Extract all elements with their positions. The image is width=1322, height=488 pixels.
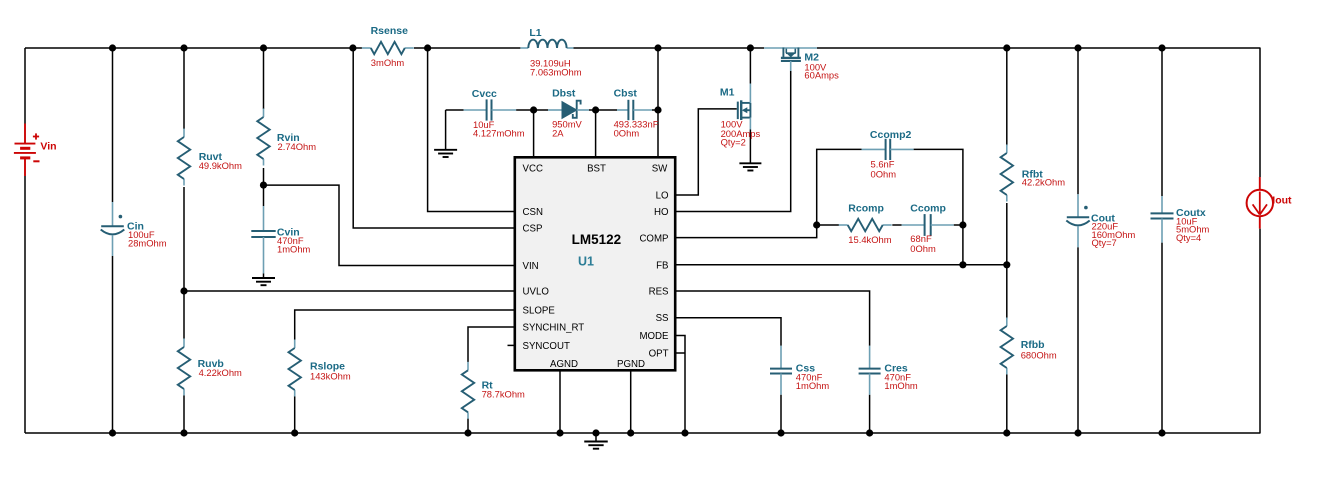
svg-text:COMP: COMP bbox=[639, 233, 668, 244]
node bottom / Cres bbox=[866, 429, 873, 436]
wire Cout bottom bbox=[1077, 247, 1079, 433]
node top bus / Cout bbox=[1074, 44, 1081, 51]
svg-text:143kOhm: 143kOhm bbox=[310, 371, 351, 382]
pin CSP bbox=[523, 224, 543, 235]
svg-text:CSN: CSN bbox=[523, 207, 543, 218]
wire Rcomp-Ccomp link bbox=[892, 224, 901, 226]
label Ruvb bbox=[198, 358, 224, 370]
node UVLO junction bbox=[180, 287, 187, 294]
wire CSP net bbox=[353, 48, 515, 228]
svg-text:1mOhm: 1mOhm bbox=[796, 380, 830, 391]
label Rcomp bbox=[848, 203, 884, 215]
wire Dbst to Cbst bbox=[589, 109, 617, 111]
wire Rt bottom bbox=[467, 419, 469, 434]
diode Dbst (schottky) bbox=[548, 101, 589, 119]
pin FB bbox=[656, 261, 668, 272]
svg-text:0Ohm: 0Ohm bbox=[614, 128, 640, 139]
label Css bbox=[796, 363, 815, 375]
svg-text:SYNCHIN_RT: SYNCHIN_RT bbox=[523, 323, 585, 334]
svg-text:60Amps: 60Amps bbox=[804, 70, 839, 81]
wire top bus output segment bbox=[817, 47, 1261, 49]
label Rvin bbox=[277, 132, 300, 144]
svg-text:4.22kOhm: 4.22kOhm bbox=[199, 367, 242, 378]
wire Ruvt-UVLO-Ruvb bbox=[183, 187, 185, 339]
value Rcomp: 15.4kOhm bbox=[848, 234, 891, 245]
pin AGND bbox=[550, 359, 578, 370]
value Cbst: 493.333nF / 0Ohm bbox=[614, 119, 659, 139]
label Ccomp bbox=[910, 203, 946, 215]
wire MODE net bbox=[675, 336, 685, 434]
wire Rslope bottom bbox=[294, 396, 296, 434]
label Rfbb bbox=[1021, 339, 1045, 351]
wire M1 source to ground bbox=[749, 130, 751, 164]
resistor Rslope bbox=[289, 340, 301, 397]
svg-text:SW: SW bbox=[652, 164, 668, 175]
svg-text:PGND: PGND bbox=[617, 359, 645, 370]
pin OPT bbox=[649, 349, 669, 360]
wire Iout bottom bbox=[1259, 229, 1261, 433]
label Vin bbox=[40, 141, 56, 153]
capacitor Cvcc bbox=[464, 99, 516, 120]
label Ccomp2 bbox=[870, 129, 912, 141]
value Cvcc: 10uF / 4.127mOhm bbox=[473, 119, 525, 139]
value Cvin: 470nF / 1mOhm bbox=[277, 235, 311, 255]
wire Cvcc ground lead bbox=[445, 110, 447, 150]
capacitor Cres bbox=[859, 346, 881, 395]
svg-text:78.7kOhm: 78.7kOhm bbox=[482, 389, 525, 400]
wire LO to M1 gate bbox=[675, 109, 737, 195]
svg-text:Qty=7: Qty=7 bbox=[1092, 237, 1117, 248]
wire Iout top bbox=[1259, 48, 1261, 177]
wire HO to M2 gate bbox=[675, 71, 791, 212]
svg-text:2A: 2A bbox=[552, 128, 564, 139]
node top bus / Ruvt bbox=[180, 44, 187, 51]
capacitor Ccomp2 bbox=[862, 139, 914, 160]
capacitor Cbst bbox=[617, 100, 652, 120]
label Rfbt bbox=[1022, 168, 1043, 180]
wire COMP net bbox=[675, 225, 817, 238]
wire Ruvb bottom bbox=[183, 396, 185, 434]
wire Ccomp2 loop left bbox=[817, 149, 862, 225]
wire UVLO net bbox=[184, 290, 515, 292]
value Cres: 470nF / 1mOhm bbox=[884, 372, 918, 392]
wire Cres bottom bbox=[869, 395, 871, 433]
wire left rail lower bbox=[24, 176, 26, 433]
svg-text:HO: HO bbox=[654, 207, 669, 218]
value Rfbb: 680Ohm bbox=[1021, 349, 1057, 360]
wire SYNCHIN_RT net bbox=[468, 327, 515, 362]
capacitor Cvin bbox=[251, 206, 275, 273]
value Rt: 78.7kOhm bbox=[482, 389, 525, 400]
current source Iout bbox=[1247, 177, 1273, 229]
svg-text:Dbst: Dbst bbox=[552, 88, 576, 100]
svg-text:SS: SS bbox=[656, 313, 669, 324]
node top bus / Rfbt bbox=[1003, 44, 1010, 51]
voltage source Vin bbox=[14, 124, 40, 177]
node bottom / Ruvb bbox=[180, 429, 187, 436]
transistor M1 (NMOS) bbox=[738, 84, 751, 130]
pin SYNCOUT bbox=[523, 341, 570, 352]
svg-text:4.127mOhm: 4.127mOhm bbox=[473, 128, 525, 139]
node Rvin-Cvin junction bbox=[260, 182, 267, 189]
wire SYNCOUT stub bbox=[508, 344, 515, 346]
ground near Cvcc bbox=[434, 150, 457, 157]
svg-text:VIN: VIN bbox=[523, 261, 539, 272]
svg-text:Cvcc: Cvcc bbox=[472, 88, 497, 100]
node top bus / SW bbox=[654, 44, 661, 51]
svg-text:2.74Ohm: 2.74Ohm bbox=[278, 141, 317, 152]
wire RES net bbox=[675, 291, 869, 346]
pin SLOPE bbox=[523, 305, 556, 316]
svg-text:1mOhm: 1mOhm bbox=[277, 244, 311, 255]
value M1: 100V / 200Amps / Qty=2 bbox=[721, 119, 761, 148]
node bottom / Cout bbox=[1074, 429, 1081, 436]
wire BST pin drop bbox=[595, 110, 597, 157]
svg-text:3mOhm: 3mOhm bbox=[371, 57, 405, 68]
pin SW bbox=[652, 164, 668, 175]
svg-text:15.4kOhm: 15.4kOhm bbox=[848, 234, 891, 245]
wire Css bottom bbox=[780, 395, 782, 433]
node bottom / MODE-OPT bbox=[681, 429, 688, 436]
node top bus / Rvin bbox=[260, 44, 267, 51]
value Dbst: 950mV / 2A bbox=[552, 119, 582, 139]
wire Cvin to ground bbox=[263, 273, 265, 278]
label Cbst bbox=[614, 88, 638, 100]
wire top bus SW segment bbox=[573, 47, 764, 49]
svg-text:Iout: Iout bbox=[1272, 194, 1292, 206]
svg-text:CSP: CSP bbox=[523, 224, 543, 235]
capacitor Coutx bbox=[1151, 196, 1174, 243]
label Coutx bbox=[1176, 207, 1206, 219]
pin RES bbox=[649, 287, 669, 298]
label Cout bbox=[1091, 212, 1115, 224]
svg-text:Cbst: Cbst bbox=[614, 88, 638, 100]
label Dbst bbox=[552, 88, 576, 100]
wire AGND drop bbox=[559, 370, 561, 433]
wire Rfbt to FB junction bbox=[1006, 203, 1008, 319]
pin MODE bbox=[639, 331, 669, 342]
svg-text:LM5122: LM5122 bbox=[572, 232, 622, 247]
node bottom / AGND bbox=[556, 429, 563, 436]
wire Ruvt top bbox=[183, 48, 185, 129]
svg-text:1mOhm: 1mOhm bbox=[884, 380, 918, 391]
resistor Ruvb bbox=[178, 339, 190, 396]
value Cout: 220uF / 160mOhm / Qty=7 bbox=[1092, 221, 1136, 248]
label Iout bbox=[1272, 194, 1292, 206]
wire Cin top bbox=[112, 48, 114, 202]
wire OPT net bbox=[675, 352, 685, 354]
node bottom / Coutx bbox=[1158, 429, 1165, 436]
wire SS net bbox=[675, 318, 781, 346]
svg-text:OPT: OPT bbox=[649, 349, 669, 360]
node comp node B bbox=[959, 221, 966, 228]
value M2: 100V / 60Amps bbox=[804, 61, 839, 80]
capacitor Css bbox=[770, 346, 792, 395]
svg-text:L1: L1 bbox=[529, 27, 541, 39]
wire bottom bus bbox=[25, 432, 1261, 434]
wire PGND drop bbox=[630, 370, 632, 433]
node top bus / Rsense left bbox=[349, 44, 356, 51]
pin CSN bbox=[523, 207, 543, 218]
resistor Rfbt bbox=[1001, 145, 1013, 202]
svg-text:Vin: Vin bbox=[40, 141, 56, 153]
svg-text:Ccomp: Ccomp bbox=[910, 203, 946, 215]
svg-text:BST: BST bbox=[587, 164, 606, 175]
pin BST bbox=[587, 164, 606, 175]
pin VCC bbox=[523, 164, 543, 175]
value L1: 39.109uH / 7.063mOhm bbox=[530, 58, 582, 78]
label U1 designator bbox=[578, 254, 594, 268]
node top bus / M1 drain bbox=[747, 44, 754, 51]
wire top bus between Rsense and L1 bbox=[414, 47, 520, 49]
wire top bus left bbox=[25, 47, 362, 49]
value Cin: 100uF / 28mOhm bbox=[128, 229, 167, 249]
label Cres bbox=[884, 363, 908, 375]
resistor Rt bbox=[462, 362, 474, 419]
wire SW net bbox=[657, 48, 659, 157]
value Rvin: 2.74Ohm bbox=[278, 141, 317, 152]
resistor Rsense bbox=[362, 42, 414, 54]
label Cvin bbox=[277, 227, 300, 239]
wire Ccomp2 loop right bbox=[914, 149, 963, 225]
wire Rfbb bottom bbox=[1006, 375, 1008, 434]
svg-text:680Ohm: 680Ohm bbox=[1021, 349, 1057, 360]
node bottom / PGND bbox=[627, 429, 634, 436]
node Cbst-SW junction bbox=[654, 106, 661, 113]
wire VCC pin drop bbox=[533, 110, 535, 157]
value Rsense: 3mOhm bbox=[371, 57, 405, 68]
IC U1 LM5122 body bbox=[515, 157, 675, 370]
inductor L1 bbox=[520, 40, 573, 48]
wire CSN net bbox=[428, 48, 515, 212]
capacitor Cout bbox=[1066, 194, 1089, 247]
wire Cvcc to VCC junction bbox=[516, 109, 548, 111]
node comp node A bbox=[813, 221, 820, 228]
label Ruvt bbox=[199, 151, 223, 163]
transistor M2 (NMOS, high side) bbox=[764, 48, 817, 72]
pin VIN bbox=[523, 261, 539, 272]
value Ruvt: 49.9kOhm bbox=[199, 160, 242, 171]
value Css: 470nF / 1mOhm bbox=[796, 372, 830, 392]
label Cvcc bbox=[472, 88, 497, 100]
wire Rfbt top bbox=[1006, 48, 1008, 146]
svg-text:0Ohm: 0Ohm bbox=[871, 169, 897, 180]
label Cin bbox=[127, 220, 144, 232]
svg-text:Rcomp: Rcomp bbox=[848, 203, 884, 215]
wire Ccomp right link bbox=[954, 224, 963, 226]
pin LO bbox=[656, 191, 669, 202]
wire left rail upper bbox=[24, 48, 26, 124]
resistor Rcomp bbox=[839, 219, 892, 231]
resistor Rfbb bbox=[1001, 318, 1013, 375]
svg-text:28mOhm: 28mOhm bbox=[128, 237, 167, 248]
wire Cout top bbox=[1077, 48, 1079, 194]
label U1 part number LM5122 bbox=[572, 232, 622, 247]
value Rslope: 143kOhm bbox=[310, 371, 351, 382]
value Coutx: 10uF / 5mOhm / Qty=4 bbox=[1176, 215, 1210, 243]
wire Cbst to SW line bbox=[652, 109, 658, 111]
resistor Rvin bbox=[257, 109, 269, 166]
svg-text:0Ohm: 0Ohm bbox=[910, 243, 936, 254]
node VCC junction bbox=[530, 106, 537, 113]
pin PGND bbox=[617, 359, 645, 370]
node bottom / ground bbox=[592, 429, 599, 436]
ground power ground bbox=[584, 433, 608, 449]
node bottom / Cin bbox=[109, 429, 116, 436]
node bottom / Rslope bbox=[291, 429, 298, 436]
pin HO bbox=[654, 207, 669, 218]
node FB-Rfb junction bbox=[1003, 261, 1010, 268]
svg-text:RES: RES bbox=[649, 287, 669, 298]
wire FB net bbox=[675, 264, 1007, 266]
svg-text:49.9kOhm: 49.9kOhm bbox=[199, 160, 242, 171]
svg-text:VCC: VCC bbox=[523, 164, 543, 175]
node bottom / Rt bbox=[464, 429, 471, 436]
svg-text:SYNCOUT: SYNCOUT bbox=[523, 341, 570, 352]
wire Cvcc row left bbox=[446, 109, 464, 111]
node BST junction bbox=[592, 106, 599, 113]
label Rt bbox=[482, 380, 494, 392]
node bottom / Rfbb bbox=[1003, 429, 1010, 436]
node FB-nodeB junction bbox=[959, 261, 966, 268]
value Ccomp: 68nF / 0Ohm bbox=[910, 233, 936, 254]
wire Rvin junction to VIN pin bbox=[264, 185, 515, 265]
svg-text:UVLO: UVLO bbox=[523, 287, 550, 298]
pin SYNCHIN_RT bbox=[523, 323, 585, 334]
node top bus / Rsense right bbox=[424, 44, 431, 51]
wire SLOPE net bbox=[295, 310, 515, 340]
wire Cin bottom bbox=[112, 256, 114, 433]
node bottom / Css bbox=[777, 429, 784, 436]
wire Rcomp left link bbox=[817, 224, 839, 226]
label Rsense bbox=[371, 25, 409, 37]
wire Rvin top bbox=[263, 48, 265, 109]
capacitor Ccomp bbox=[902, 214, 954, 236]
node top bus / Coutx bbox=[1158, 44, 1165, 51]
wire node B to FB bbox=[962, 225, 964, 265]
svg-text:42.2kOhm: 42.2kOhm bbox=[1022, 177, 1065, 188]
label L1 bbox=[529, 27, 541, 39]
label Rslope bbox=[310, 361, 345, 373]
pin UVLO bbox=[523, 287, 550, 298]
capacitor Cin bbox=[101, 202, 125, 256]
wire M1 drain bbox=[749, 48, 751, 84]
svg-text:SLOPE: SLOPE bbox=[523, 305, 556, 316]
resistor Ruvt bbox=[178, 129, 190, 186]
svg-text:U1: U1 bbox=[578, 254, 594, 268]
svg-text:Qty=4: Qty=4 bbox=[1176, 232, 1201, 243]
wire Rvin to Cvin junction bbox=[263, 168, 265, 206]
node top bus / Cin bbox=[109, 44, 116, 51]
pin COMP bbox=[639, 233, 668, 244]
svg-text:LO: LO bbox=[656, 191, 669, 202]
value Ruvb: 4.22kOhm bbox=[199, 367, 242, 378]
ground M1 source bbox=[739, 163, 761, 170]
pin SS bbox=[656, 313, 669, 324]
svg-text:Rsense: Rsense bbox=[371, 25, 409, 37]
svg-text:FB: FB bbox=[656, 261, 668, 272]
svg-text:Qty=2: Qty=2 bbox=[721, 137, 746, 148]
value Rfbt: 42.2kOhm bbox=[1022, 177, 1065, 188]
wire Coutx bottom bbox=[1161, 243, 1163, 433]
svg-text:AGND: AGND bbox=[550, 359, 578, 370]
ground near Cvin bbox=[252, 278, 275, 285]
svg-text:MODE: MODE bbox=[639, 331, 669, 342]
value Ccomp2: 5.6nF / 0Ohm bbox=[871, 158, 897, 179]
label M2 bbox=[804, 51, 819, 63]
wire Coutx top bbox=[1161, 48, 1163, 196]
label M1 bbox=[720, 86, 735, 98]
svg-text:Ccomp2: Ccomp2 bbox=[870, 129, 912, 141]
svg-text:M1: M1 bbox=[720, 86, 735, 98]
svg-text:7.063mOhm: 7.063mOhm bbox=[530, 66, 582, 77]
